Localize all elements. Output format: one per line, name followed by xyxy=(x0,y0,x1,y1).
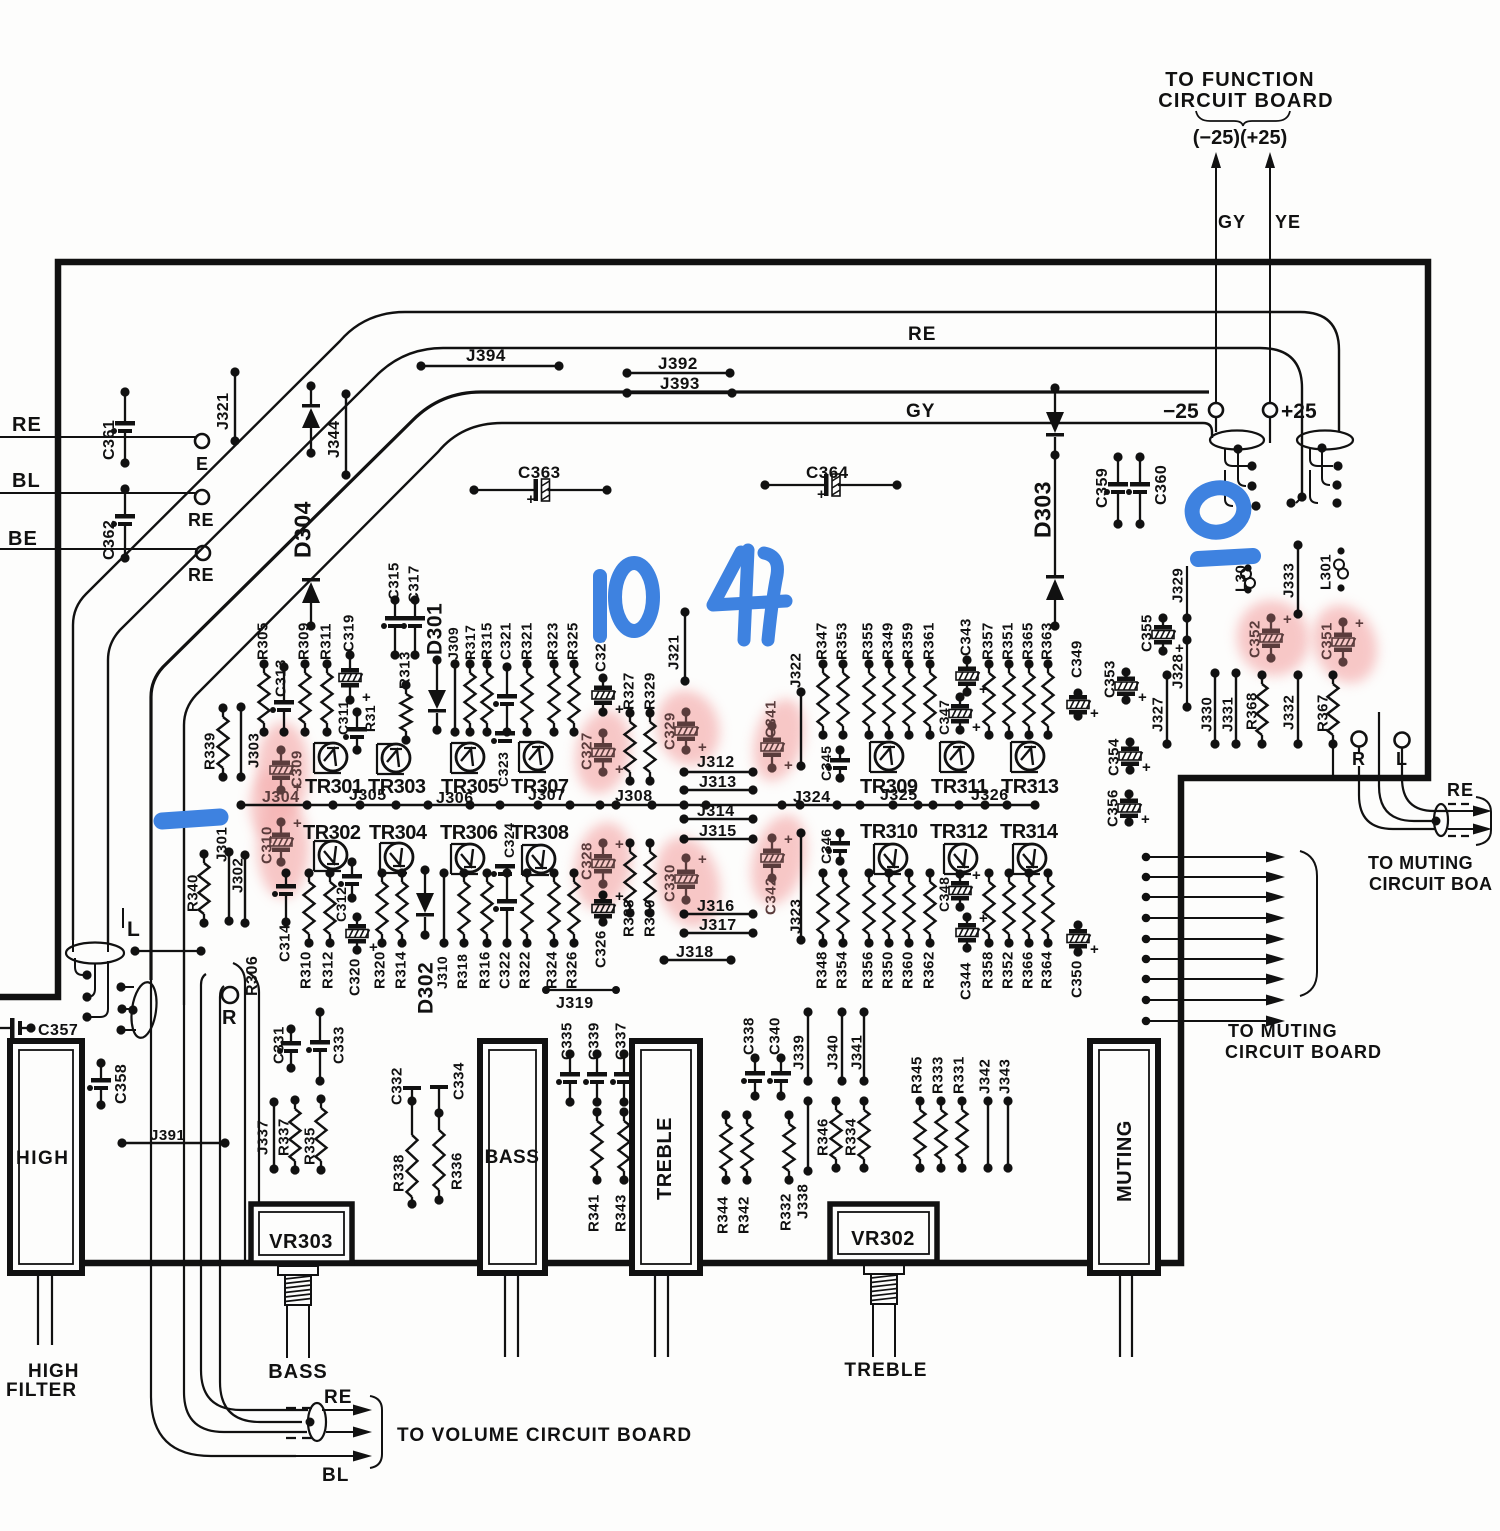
pad +25 xyxy=(1263,403,1277,417)
label TR303 xyxy=(368,776,426,798)
label GY on trace xyxy=(906,401,935,422)
capacitor C352 xyxy=(1246,611,1292,663)
svg-text:R314: R314 xyxy=(392,951,409,989)
svg-text:C345: C345 xyxy=(818,746,834,781)
label J308 xyxy=(615,788,653,805)
svg-text:J308: J308 xyxy=(615,788,653,805)
blue mark dash left xyxy=(162,817,220,821)
svg-text:YE: YE xyxy=(1275,212,1301,232)
label -25 xyxy=(1163,400,1199,423)
resistor R305 xyxy=(254,622,271,736)
resistor R353 xyxy=(833,622,850,739)
resistor R328 xyxy=(620,838,637,937)
jumper J342 xyxy=(976,1059,993,1173)
resistor R361 xyxy=(920,622,937,739)
svg-text:R346: R346 xyxy=(814,1118,831,1156)
resistor R357 xyxy=(979,622,996,739)
svg-text:R356: R356 xyxy=(859,951,876,989)
svg-text:J339: J339 xyxy=(790,1035,807,1070)
svg-text:L301: L301 xyxy=(1317,554,1334,590)
capacitor C342 xyxy=(761,831,793,915)
label YE xyxy=(1275,212,1301,232)
svg-text:RE: RE xyxy=(1447,780,1474,800)
resistor R350 xyxy=(879,868,896,989)
svg-text:R323: R323 xyxy=(544,622,561,660)
svg-text:C359: C359 xyxy=(1094,468,1111,508)
wire R306 line xyxy=(244,956,261,1204)
svg-text:R364: R364 xyxy=(1038,951,1055,989)
resistor R334 xyxy=(842,1096,869,1172)
svg-text:J321: J321 xyxy=(665,635,682,670)
svg-text:C337: C337 xyxy=(612,1022,629,1060)
capacitor C359 xyxy=(1094,452,1128,528)
resistor R330 xyxy=(641,838,658,937)
svg-text:C344: C344 xyxy=(957,962,974,1000)
svg-text:J392: J392 xyxy=(658,354,698,373)
jumper J322 xyxy=(787,653,805,771)
svg-text:J309: J309 xyxy=(445,627,461,660)
svg-text:R324: R324 xyxy=(543,951,560,989)
diode D303 xyxy=(1029,383,1064,630)
svg-text:R359: R359 xyxy=(899,622,916,660)
svg-text:C320: C320 xyxy=(346,958,363,996)
label HIGH FILTER xyxy=(6,1361,80,1401)
capacitor C349 xyxy=(1067,640,1099,722)
svg-text:J329: J329 xyxy=(1169,568,1186,603)
svg-text:R341: R341 xyxy=(585,1194,602,1232)
capacitor C327 xyxy=(578,728,624,778)
svg-text:R305: R305 xyxy=(254,622,271,660)
jumper J391 xyxy=(117,1127,229,1148)
capacitor C337 xyxy=(610,1022,634,1106)
jumper J331 xyxy=(1219,668,1240,748)
transistor TR312 xyxy=(944,844,977,874)
svg-text:C330: C330 xyxy=(661,864,678,902)
resistor R331 xyxy=(950,1056,967,1172)
svg-text:+: + xyxy=(1141,811,1150,828)
svg-text:R326: R326 xyxy=(563,951,580,989)
resistor R320 xyxy=(371,868,388,989)
block HIGH xyxy=(10,1041,82,1273)
cable ferrite right xyxy=(1432,804,1449,836)
svg-text:R315: R315 xyxy=(478,622,495,660)
svg-text:TR303: TR303 xyxy=(368,776,426,798)
svg-text:TREBLE: TREBLE xyxy=(844,1360,927,1381)
muting arrow 5 xyxy=(1142,934,1285,945)
svg-text:J340: J340 xyxy=(824,1035,841,1070)
wires below TREBLE xyxy=(655,1273,668,1357)
svg-text:BL: BL xyxy=(12,470,41,492)
svg-text:TR304: TR304 xyxy=(369,822,428,844)
label RE on trace xyxy=(908,324,936,345)
resistor R327 xyxy=(620,672,637,785)
svg-text:J319: J319 xyxy=(556,995,594,1012)
label TR307 xyxy=(511,776,569,798)
jumper J333 xyxy=(1280,540,1302,618)
pad R right xyxy=(1352,732,1367,770)
wires below BASS xyxy=(505,1273,518,1357)
svg-text:R310: R310 xyxy=(297,951,314,989)
wire volume 4 xyxy=(220,986,302,1422)
svg-text:R339: R339 xyxy=(201,732,218,770)
svg-text:C363: C363 xyxy=(518,463,561,482)
svg-text:J317: J317 xyxy=(699,917,737,934)
svg-text:C361: C361 xyxy=(101,420,118,460)
resistor R338 xyxy=(390,1101,417,1209)
svg-text:+: + xyxy=(1090,941,1099,958)
resistor R340 xyxy=(184,849,209,927)
svg-text:R343: R343 xyxy=(612,1194,629,1232)
jumper J327 xyxy=(1149,670,1171,748)
trace 2 xyxy=(108,348,1302,944)
resistor R325 xyxy=(564,622,581,736)
svg-text:TO MUTING: TO MUTING xyxy=(1368,853,1473,873)
svg-text:C357: C357 xyxy=(38,1022,78,1039)
svg-text:J322: J322 xyxy=(787,653,804,688)
arrow right 2 xyxy=(1448,824,1492,835)
svg-text:C329: C329 xyxy=(661,712,678,750)
trace 4 xyxy=(184,423,1212,1005)
pad RE 2 xyxy=(188,490,214,530)
svg-text:J312: J312 xyxy=(697,754,735,771)
svg-text:J333: J333 xyxy=(1280,563,1297,598)
label TR311 xyxy=(931,776,988,798)
jumper J337 xyxy=(254,1097,278,1173)
jumper J344 xyxy=(326,389,351,479)
capacitor C360 xyxy=(1126,452,1170,528)
transistor TR306 xyxy=(451,844,484,874)
svg-text:J338: J338 xyxy=(794,1184,811,1219)
svg-text:+: + xyxy=(293,815,302,832)
resistor R315 xyxy=(478,622,495,736)
capacitor C364 xyxy=(760,463,901,503)
svg-text:R342: R342 xyxy=(735,1196,752,1234)
resistor R354 xyxy=(833,868,850,989)
label +25 xyxy=(1281,400,1317,423)
muting arrow 2 xyxy=(1142,872,1285,883)
label TO VOLUME CIRCUIT BOARD xyxy=(397,1425,692,1446)
label TR302 xyxy=(303,822,361,844)
capacitor C321 xyxy=(493,622,517,736)
svg-text:TR306: TR306 xyxy=(440,822,498,844)
svg-text:R317: R317 xyxy=(462,625,478,660)
svg-text:R340: R340 xyxy=(184,874,201,912)
svg-text:+: + xyxy=(1142,759,1151,776)
svg-text:R336: R336 xyxy=(448,1152,465,1190)
jumper J341 xyxy=(848,1007,868,1085)
jumper J301 xyxy=(213,827,233,926)
resistor R314 xyxy=(392,868,409,989)
label TR301 xyxy=(305,776,363,798)
svg-text:C321: C321 xyxy=(497,622,514,660)
svg-text:R363: R363 xyxy=(1038,622,1055,660)
svg-text:C333: C333 xyxy=(330,1026,347,1064)
capacitor C311 xyxy=(335,700,367,754)
svg-text:C334: C334 xyxy=(450,1062,467,1100)
resistor R342 xyxy=(735,1110,752,1234)
cable ferrite volume xyxy=(306,1403,327,1441)
capacitor C348 xyxy=(936,867,981,912)
jumper J316 xyxy=(679,898,757,919)
bus drop xyxy=(244,805,246,982)
capacitor C319 xyxy=(339,614,371,706)
jumper J340 xyxy=(824,1007,846,1085)
svg-text:+: + xyxy=(615,836,624,853)
label J325 xyxy=(880,787,918,804)
svg-text:J313: J313 xyxy=(699,774,737,791)
svg-text:R352: R352 xyxy=(999,951,1016,989)
svg-text:VR302: VR302 xyxy=(851,1228,915,1250)
svg-text:BE: BE xyxy=(8,528,38,550)
jumper J310 xyxy=(434,868,450,989)
svg-text:+: + xyxy=(527,491,536,508)
svg-text:J343: J343 xyxy=(996,1059,1013,1094)
svg-text:J316: J316 xyxy=(697,898,735,915)
cable ferrite 2 xyxy=(1286,431,1353,508)
bus wire xyxy=(241,804,1035,807)
VR302 shaft xyxy=(864,1265,904,1357)
wire to function board GY xyxy=(1211,152,1221,403)
svg-text:J310: J310 xyxy=(434,956,450,989)
pad RE 3 xyxy=(188,546,214,585)
brace xyxy=(1196,111,1290,126)
capacitor C320 xyxy=(346,912,378,996)
capacitor C355 xyxy=(1138,613,1184,657)
muting arrow 9 xyxy=(1142,1016,1285,1027)
svg-text:R362: R362 xyxy=(920,951,937,989)
capacitor C334 xyxy=(430,1062,467,1118)
label TO FUNCTION CIRCUIT BOARD xyxy=(1158,69,1334,112)
svg-text:C311: C311 xyxy=(335,700,351,735)
svg-text:J303: J303 xyxy=(245,733,262,768)
arrow volume mid xyxy=(326,1427,372,1438)
wire to function board YE xyxy=(1265,152,1275,403)
svg-text:L30: L30 xyxy=(1232,565,1249,592)
label TR314 xyxy=(1000,821,1059,843)
jumper J318 xyxy=(659,944,735,965)
svg-text:RE: RE xyxy=(12,414,42,436)
svg-text:C358: C358 xyxy=(113,1064,130,1104)
muting arrow 4 xyxy=(1142,913,1285,924)
svg-text:+25: +25 xyxy=(1281,400,1317,423)
resistor R333 xyxy=(929,1056,946,1172)
svg-text:+: + xyxy=(1283,611,1292,628)
jumper J321 left xyxy=(215,367,240,445)
svg-text:CIRCUIT BOARD: CIRCUIT BOARD xyxy=(1225,1042,1382,1062)
svg-text:R360: R360 xyxy=(899,951,916,989)
resistor R313 xyxy=(396,651,413,744)
svg-text:CIRCUIT BOARD: CIRCUIT BOARD xyxy=(1158,90,1334,112)
resistor R323 xyxy=(544,622,561,736)
svg-text:TR308: TR308 xyxy=(511,822,569,844)
resistor R359 xyxy=(899,622,916,739)
svg-text:C347: C347 xyxy=(936,700,952,735)
capacitor C353 xyxy=(1101,660,1147,706)
label BL volume xyxy=(322,1465,349,1486)
capacitor C330 xyxy=(661,851,707,905)
svg-text:R327: R327 xyxy=(620,672,637,710)
coil L301 xyxy=(1317,547,1348,591)
label RE volume xyxy=(324,1387,352,1408)
wire volume 3 xyxy=(201,974,308,1410)
resistor R355 xyxy=(859,622,876,739)
jumper J314 xyxy=(679,803,757,824)
svg-text:R325: R325 xyxy=(564,622,581,660)
svg-text:J331: J331 xyxy=(1219,697,1236,732)
resistor R358 xyxy=(979,868,996,989)
resistor R360 xyxy=(899,868,916,989)
wire RE xyxy=(0,414,196,437)
svg-text:C342: C342 xyxy=(762,877,779,915)
svg-text:TR307: TR307 xyxy=(511,776,569,798)
label BASS shaft xyxy=(268,1361,328,1383)
resistor R310 xyxy=(297,868,314,989)
svg-text:RE: RE xyxy=(188,565,214,585)
blue mark dash right xyxy=(1198,556,1253,559)
svg-text:J324: J324 xyxy=(793,789,831,806)
svg-text:+: + xyxy=(972,867,981,884)
label TO MUTING CIRCUIT BOARD xyxy=(1225,1021,1382,1062)
svg-text:R345: R345 xyxy=(908,1056,925,1094)
muting arrow 7 xyxy=(1142,974,1285,985)
svg-text:TREBLE: TREBLE xyxy=(654,1117,676,1200)
svg-text:D301: D301 xyxy=(424,603,447,655)
transistor TR308 xyxy=(522,845,555,875)
wire R to VR303 xyxy=(233,963,245,1263)
svg-text:(−25)(+25): (−25)(+25) xyxy=(1193,127,1288,149)
svg-text:CIRCUIT BOA: CIRCUIT BOA xyxy=(1369,874,1493,894)
capacitor C341 xyxy=(761,700,793,774)
svg-text:C354: C354 xyxy=(1105,738,1122,776)
svg-text:J342: J342 xyxy=(976,1059,993,1094)
svg-text:R344: R344 xyxy=(714,1196,731,1234)
capacitor C350 xyxy=(1067,920,1099,998)
block BASS xyxy=(480,1041,545,1273)
svg-text:+: + xyxy=(1090,705,1099,722)
resistor R335 xyxy=(301,1094,326,1174)
wire mid out xyxy=(1379,712,1436,821)
capacitor C358 xyxy=(87,1058,130,1109)
jumper J303 xyxy=(236,702,262,781)
svg-text:J328: J328 xyxy=(1169,654,1186,689)
svg-text:+: + xyxy=(784,831,793,848)
svg-text:HIGH: HIGH xyxy=(16,1148,70,1169)
arrow right RE xyxy=(1448,806,1492,817)
jumper J323 xyxy=(787,828,805,944)
jumper J393 xyxy=(622,374,736,398)
capacitor C312 xyxy=(333,857,362,922)
svg-text:+: + xyxy=(698,851,707,868)
dashes xyxy=(286,1408,312,1438)
jumper J309 xyxy=(445,627,461,737)
svg-text:L: L xyxy=(127,918,140,941)
svg-text:R306: R306 xyxy=(244,956,261,996)
label TR304 xyxy=(369,822,428,844)
svg-text:TO VOLUME CIRCUIT BOARD: TO VOLUME CIRCUIT BOARD xyxy=(397,1425,692,1446)
svg-text:C324: C324 xyxy=(501,823,517,858)
muting arrow 8 xyxy=(1142,995,1285,1006)
muting arrow 6 xyxy=(1142,954,1285,965)
capacitor C324 xyxy=(491,823,517,877)
label J305 xyxy=(349,787,387,804)
svg-text:R355: R355 xyxy=(859,622,876,660)
label TR312 xyxy=(930,821,988,843)
capacitor C346 xyxy=(818,828,850,865)
jumper J339 xyxy=(790,1007,812,1085)
svg-text:+: + xyxy=(784,757,793,774)
capacitor C323 xyxy=(491,731,515,787)
svg-text:C349: C349 xyxy=(1068,640,1085,678)
svg-text:R329: R329 xyxy=(641,672,658,710)
capacitor C335 xyxy=(556,1022,580,1106)
svg-text:RE: RE xyxy=(324,1387,352,1408)
label TREBLE shaft xyxy=(844,1360,927,1381)
svg-text:J393: J393 xyxy=(660,374,700,393)
resistor R337 xyxy=(275,1095,300,1174)
svg-text:BASS: BASS xyxy=(268,1361,328,1383)
svg-text:C309: C309 xyxy=(288,750,305,788)
label TR313 xyxy=(1001,776,1059,798)
svg-text:R311: R311 xyxy=(317,623,334,660)
svg-text:J314: J314 xyxy=(697,803,735,820)
jumper J332 xyxy=(1280,670,1302,748)
svg-text:−25: −25 xyxy=(1163,400,1199,423)
pad L right xyxy=(1395,733,1410,770)
transistor TR304 xyxy=(380,843,413,873)
wires below MUTING xyxy=(1120,1273,1132,1357)
svg-text:C339: C339 xyxy=(585,1022,602,1060)
resistor R317 xyxy=(462,625,478,737)
resistor R324 xyxy=(543,868,560,989)
svg-text:J337: J337 xyxy=(254,1120,271,1155)
svg-text:J391: J391 xyxy=(150,1127,185,1144)
svg-text:MUTING: MUTING xyxy=(1114,1120,1136,1202)
svg-text:GY: GY xyxy=(906,401,935,422)
svg-text:R331: R331 xyxy=(950,1056,967,1094)
board outline xyxy=(0,262,1428,1263)
svg-text:C360: C360 xyxy=(1153,465,1170,505)
resistor R318 xyxy=(454,868,470,989)
svg-text:FILTER: FILTER xyxy=(6,1380,77,1401)
capacitor C347 xyxy=(936,692,981,736)
wire volume 1 xyxy=(151,978,296,1456)
svg-text:R: R xyxy=(222,1007,237,1029)
svg-text:J323: J323 xyxy=(787,899,804,934)
resistor R356 xyxy=(859,868,876,989)
label J324 xyxy=(793,789,831,806)
svg-text:C362: C362 xyxy=(101,520,118,560)
label R315s xyxy=(362,705,378,732)
block TREBLE xyxy=(632,1041,700,1273)
capacitor C315 xyxy=(381,562,405,659)
svg-text:TR309: TR309 xyxy=(860,776,918,798)
svg-text:R357: R357 xyxy=(979,622,996,660)
block VR303 xyxy=(251,1204,352,1263)
svg-text:E: E xyxy=(196,454,209,474)
wire L out xyxy=(1402,748,1450,811)
svg-text:C328: C328 xyxy=(578,842,595,880)
svg-text:R367: R367 xyxy=(1314,694,1331,732)
capacitor C317 xyxy=(401,565,425,659)
trace GY xyxy=(151,392,1209,980)
svg-text:R328: R328 xyxy=(620,899,637,937)
svg-text:R333: R333 xyxy=(929,1056,946,1094)
svg-text:C327: C327 xyxy=(578,732,595,770)
svg-text:+: + xyxy=(1355,615,1364,632)
svg-text:C351: C351 xyxy=(1318,622,1335,660)
capacitor C328 xyxy=(578,836,624,889)
resistor R348 xyxy=(813,868,830,989)
